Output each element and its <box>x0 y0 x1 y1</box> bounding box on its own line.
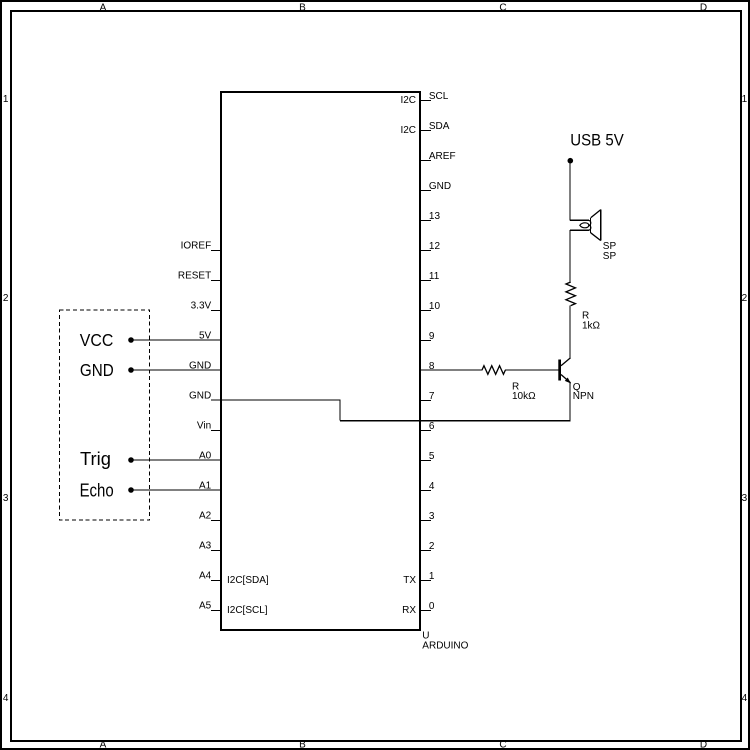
svg-text:A4: A4 <box>199 570 212 581</box>
svg-text:GND: GND <box>429 181 451 192</box>
svg-text:NPN: NPN <box>573 391 594 402</box>
svg-text:2: 2 <box>742 293 748 304</box>
svg-text:1kΩ: 1kΩ <box>582 321 601 332</box>
svg-text:ARDUINO: ARDUINO <box>422 641 468 652</box>
svg-text:A1: A1 <box>199 480 212 491</box>
svg-text:1: 1 <box>429 571 435 582</box>
svg-text:2: 2 <box>3 293 9 304</box>
svg-text:GND: GND <box>80 360 114 381</box>
svg-text:5: 5 <box>429 451 435 462</box>
svg-text:1: 1 <box>3 94 9 105</box>
svg-text:I2C: I2C <box>400 125 416 136</box>
svg-text:3: 3 <box>3 493 9 504</box>
svg-text:A: A <box>100 739 107 750</box>
svg-text:GND: GND <box>189 390 211 401</box>
svg-text:I2C[SDA]: I2C[SDA] <box>227 575 269 586</box>
svg-text:RX: RX <box>402 605 416 616</box>
svg-text:A: A <box>100 2 107 13</box>
svg-text:AREF: AREF <box>429 151 456 162</box>
svg-text:Trig: Trig <box>80 449 111 469</box>
svg-text:8: 8 <box>429 361 435 372</box>
svg-text:C: C <box>499 739 506 750</box>
svg-text:A3: A3 <box>199 540 212 551</box>
svg-text:10: 10 <box>429 301 441 312</box>
svg-text:11: 11 <box>429 271 440 282</box>
svg-text:SDA: SDA <box>429 121 450 132</box>
svg-text:B: B <box>299 739 306 750</box>
svg-text:3: 3 <box>742 493 748 504</box>
svg-text:4: 4 <box>3 693 9 704</box>
svg-text:5V: 5V <box>199 330 212 341</box>
svg-text:13: 13 <box>429 211 441 222</box>
svg-text:9: 9 <box>429 331 435 342</box>
svg-text:10kΩ: 10kΩ <box>512 391 536 402</box>
svg-text:USB 5V: USB 5V <box>570 132 624 150</box>
svg-text:1: 1 <box>742 94 748 105</box>
svg-text:7: 7 <box>429 391 435 402</box>
svg-text:4: 4 <box>742 693 748 704</box>
svg-text:GND: GND <box>189 360 211 371</box>
svg-text:D: D <box>700 2 707 13</box>
svg-text:3: 3 <box>429 511 435 522</box>
svg-text:VCC: VCC <box>80 330 114 350</box>
svg-text:TX: TX <box>403 575 416 586</box>
svg-text:A5: A5 <box>199 600 212 611</box>
svg-text:C: C <box>499 2 506 13</box>
svg-text:Vin: Vin <box>197 420 211 431</box>
svg-text:4: 4 <box>429 481 435 492</box>
svg-text:3.3V: 3.3V <box>191 300 212 311</box>
svg-text:B: B <box>299 2 306 13</box>
svg-text:SCL: SCL <box>429 91 449 102</box>
svg-text:RESET: RESET <box>178 270 211 281</box>
svg-text:IOREF: IOREF <box>181 240 212 251</box>
svg-text:A2: A2 <box>199 510 212 521</box>
svg-text:0: 0 <box>429 601 435 612</box>
svg-text:Echo: Echo <box>80 480 114 501</box>
svg-text:I2C[SCL]: I2C[SCL] <box>227 605 268 616</box>
svg-text:SP: SP <box>603 251 617 262</box>
svg-text:D: D <box>700 739 707 750</box>
svg-text:12: 12 <box>429 241 441 252</box>
svg-text:A0: A0 <box>199 450 212 461</box>
svg-text:I2C: I2C <box>400 95 416 106</box>
svg-text:2: 2 <box>429 541 435 552</box>
svg-text:6: 6 <box>429 421 435 432</box>
